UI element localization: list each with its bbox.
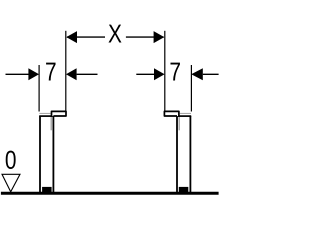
arrowhead 7 right inner <box>154 68 165 80</box>
left rail right wall <box>52 116 54 193</box>
right rail left wall <box>176 116 178 193</box>
label X <box>108 25 121 43</box>
arrowhead 7 left inner <box>66 68 77 80</box>
arrowhead 7 right outer <box>191 68 203 80</box>
dimension 7 left tail line <box>77 73 98 75</box>
datum triangle <box>2 174 20 192</box>
left rail hidden inner line <box>50 117 52 130</box>
arrowhead X left <box>66 31 77 43</box>
dimension X line right segment <box>126 36 164 38</box>
left rail foot <box>42 187 52 193</box>
dimension 7 left leader line <box>6 73 30 75</box>
right rail hidden inner line <box>178 117 180 130</box>
left rail hidden top edge <box>39 112 50 114</box>
label 7 right <box>170 63 179 81</box>
right rail lip <box>164 111 179 117</box>
label 0 datum <box>6 151 16 169</box>
dimension X line left segment <box>67 36 105 38</box>
extension line right outer <box>190 65 192 112</box>
right rail foot <box>179 187 189 193</box>
dimension 7 right tail line <box>136 73 154 75</box>
left rail lip <box>52 111 67 117</box>
right rail hidden top edge <box>180 112 191 114</box>
arrowhead X right <box>154 31 165 43</box>
right rail top edge <box>178 115 191 117</box>
extension line right inner <box>164 31 166 112</box>
extension line left outer <box>38 65 40 112</box>
right rail right wall <box>189 116 191 193</box>
arrowhead 7 left outer <box>28 68 39 80</box>
extension line left inner <box>65 31 67 112</box>
label 7 left <box>46 63 55 81</box>
left rail left wall <box>39 116 41 193</box>
dimension 7 right leader line <box>203 73 219 75</box>
floor line <box>1 192 219 195</box>
left rail top edge <box>39 115 52 117</box>
